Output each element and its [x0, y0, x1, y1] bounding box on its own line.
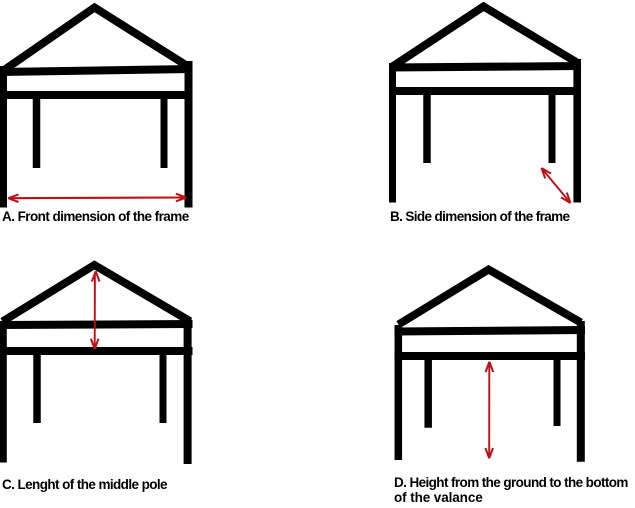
tent C valance bottom bar [0, 347, 193, 355]
tent A valance bottom bar [0, 91, 193, 99]
tent D frame [395, 270, 586, 462]
arrow D vertical double-headed [485, 362, 493, 459]
tent B top bar [389, 66, 581, 68]
tent D right inner leg [554, 356, 561, 426]
tent B left inner leg [423, 91, 431, 163]
tent D right outer leg [577, 321, 585, 462]
tent C top bar [0, 324, 193, 325]
svg-text:C. Lenght of the middle pole: C. Lenght of the middle pole [2, 477, 168, 492]
tent C right outer leg [184, 317, 192, 464]
tent C left inner leg [33, 351, 41, 423]
tent A left inner leg [33, 95, 41, 168]
tent C left outer leg [0, 322, 7, 463]
svg-text:D. Height from the ground to t: D. Height from the ground to the bottom [394, 475, 628, 490]
tent C right inner leg [160, 351, 167, 423]
tent D left outer leg [395, 325, 403, 460]
tent A roof [2, 8, 189, 72]
tent B left outer leg [389, 63, 396, 203]
tent B roof [393, 7, 578, 67]
arrow A horizontal double-headed [8, 194, 186, 202]
tent A frame [0, 8, 193, 208]
tent D left inner leg [424, 356, 432, 428]
tent B right inner leg [549, 91, 556, 163]
tent B right outer leg [573, 59, 581, 203]
tent B valance bottom bar [389, 87, 581, 95]
tent B frame [389, 7, 581, 203]
tent A top bar [0, 69, 193, 72]
tent D top bar [395, 330, 586, 332]
tent A right outer leg [185, 61, 193, 208]
tent C frame [0, 265, 193, 464]
tent D valance bottom bar [395, 352, 586, 360]
tent C roof [3, 265, 189, 322]
svg-text:A. Front dimension of the fram: A. Front dimension of the frame [2, 209, 190, 224]
arrow B diagonal double-headed [542, 168, 571, 203]
svg-text:B. Side dimension of the frame: B. Side dimension of the frame [390, 209, 571, 224]
arrow C vertical double-headed [91, 271, 100, 349]
tent A right inner leg [161, 95, 168, 168]
svg-text:of the valance: of the valance [394, 490, 483, 505]
tent A left outer leg [0, 66, 7, 208]
tent D roof [399, 270, 581, 325]
